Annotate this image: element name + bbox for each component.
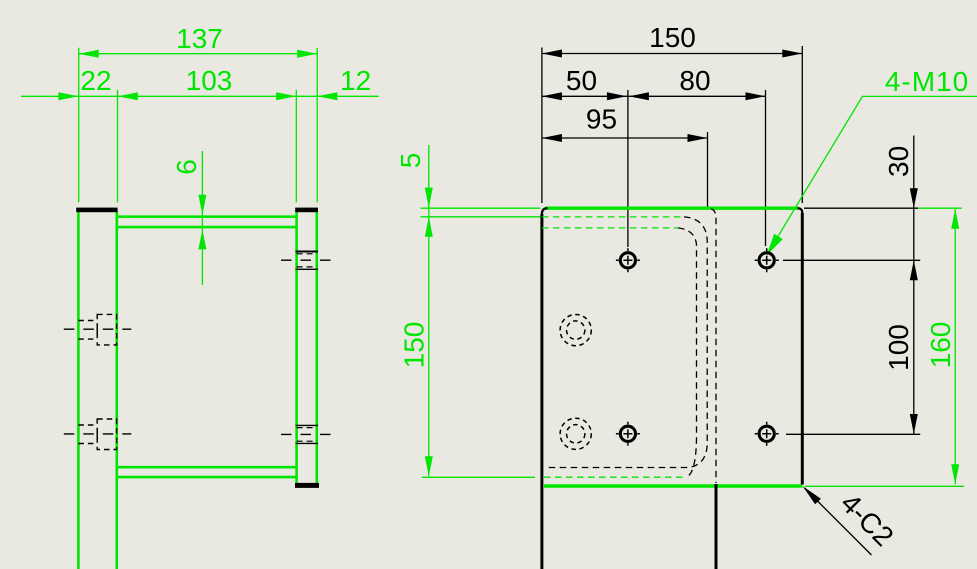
svg-text:4-M10: 4-M10: [885, 66, 969, 97]
arrow 12 outside: [317, 92, 337, 100]
hidden hole circles upper: [560, 315, 591, 346]
top right black cap: [295, 208, 318, 213]
arrow 5 lower / 150 top: [425, 217, 433, 237]
face plate right edge: [315, 212, 318, 483]
hidden hole circles lower: [560, 418, 591, 449]
hidden column edge dashed: [711, 209, 716, 483]
screw right leg upper: [281, 252, 332, 270]
bend inner black dashed: [678, 228, 697, 477]
dimension 22/103/12 line: [21, 95, 379, 97]
hole M10 bottom-right: [755, 422, 779, 446]
extension line plate left x541.9: [541, 48, 543, 204]
top plate upper line: [117, 215, 297, 218]
extension top edge right black: [804, 207, 918, 209]
bottom plate lower line: [117, 476, 297, 479]
face plate left edge: [295, 212, 298, 483]
arrow 6 lower: [198, 229, 206, 249]
svg-text:5: 5: [395, 153, 426, 169]
extension bottom left green: [422, 476, 535, 478]
arrow 6 upper: [198, 195, 206, 215]
arrow 150 right: [782, 50, 802, 58]
svg-text:50: 50: [566, 65, 597, 96]
extension line bend x707.5: [707, 132, 709, 207]
extension line hole col1 x627.9: [627, 90, 629, 247]
svg-text:160: 160: [925, 322, 956, 369]
extension line left outer x78.7: [78, 48, 80, 203]
arrow 137 right: [297, 50, 317, 58]
extension line right inner x296.3: [295, 90, 297, 203]
arrow 50 left: [542, 92, 562, 100]
arrow 103 right: [276, 92, 296, 100]
svg-text:22: 22: [80, 65, 111, 96]
svg-text:150: 150: [399, 322, 430, 369]
lower column edge black: [715, 484, 718, 569]
plate top edge green: [545, 206, 799, 209]
extension top edge far right green: [918, 207, 961, 209]
arrow 103 left: [118, 92, 138, 100]
screw left wall lower: [64, 419, 132, 450]
arrow 4-C2: [803, 486, 821, 504]
svg-text:103: 103: [186, 65, 233, 96]
hole M10 top-right: [755, 248, 779, 272]
extension bend line left green: [421, 216, 541, 218]
plate top-right corner: [798, 208, 803, 213]
arrow 160 bottom: [951, 464, 959, 484]
svg-text:12: 12: [340, 65, 371, 96]
arrow 80 left: [629, 92, 649, 100]
extension bottom right green: [805, 485, 964, 487]
leader 4-M10: [767, 96, 977, 254]
extension line left inner x117.5: [117, 90, 119, 203]
left wall outer edge: [77, 212, 80, 569]
bend tangent green dashed top2: [542, 227, 678, 229]
bottom plate upper line: [117, 466, 297, 469]
svg-text:100: 100: [883, 324, 914, 371]
plate left edge black: [540, 214, 543, 569]
dimension 50/80 line: [542, 95, 766, 97]
dimension 150 top line: [542, 53, 802, 55]
arrow 80 right: [746, 92, 766, 100]
green dimension group right view: [421, 96, 977, 486]
plate top-left corner: [542, 208, 548, 214]
arrow 95 right: [688, 134, 708, 142]
svg-text:95: 95: [586, 104, 617, 135]
arrow 50 right: [607, 92, 627, 100]
extension line hole row1: [783, 259, 920, 261]
bend tangent green dashed bottom: [544, 476, 686, 478]
arrow 5 upper: [425, 188, 433, 208]
plate right edge black: [801, 213, 804, 485]
svg-text:30: 30: [883, 146, 914, 177]
svg-text:80: 80: [679, 65, 710, 96]
screw right leg lower: [281, 425, 332, 443]
extension line hole row2: [786, 433, 920, 435]
arrow 137 left: [79, 50, 99, 58]
dimension 160 line: [954, 209, 956, 485]
dimension 137 line: [79, 53, 318, 55]
bend outer black dashed: [545, 217, 707, 468]
svg-text:6: 6: [171, 159, 202, 175]
top left black cap: [76, 208, 117, 213]
dimension 95 line: [542, 137, 708, 139]
arrow 30 top: [910, 188, 918, 208]
left wall inner edge: [116, 212, 119, 569]
arrow 4-M10: [767, 234, 783, 256]
arrow 150 left: [542, 50, 562, 58]
bottom right black cap: [295, 483, 319, 488]
top plate lower line: [117, 226, 297, 229]
dimension 6 line: [201, 151, 203, 285]
arrow 160 top: [951, 209, 959, 229]
arrow 95 left: [542, 134, 562, 142]
arrow 22 outside: [58, 92, 78, 100]
plate bottom edge green: [544, 484, 803, 487]
hole M10 bottom-left: [616, 422, 640, 446]
arrow 100 bottom: [910, 414, 918, 434]
arrow 150 bottom: [425, 456, 433, 476]
extension line hole col2 x765.5: [765, 90, 767, 246]
extension line right outer x317.2: [316, 48, 318, 203]
screw left wall upper: [64, 314, 132, 345]
leader 4-C2: [805, 488, 872, 555]
extension line plate right x802.3: [801, 46, 803, 203]
arrow 30/100 middle: [910, 260, 918, 280]
hole M10 top-left: [616, 248, 640, 272]
svg-text:137: 137: [176, 23, 223, 54]
extension top edge left green: [421, 207, 541, 209]
dimension 30/100 line: [913, 136, 915, 435]
bend tangent green dashed top1: [542, 216, 684, 218]
dimension 5/150 line: [428, 145, 430, 476]
svg-text:150: 150: [649, 22, 696, 53]
